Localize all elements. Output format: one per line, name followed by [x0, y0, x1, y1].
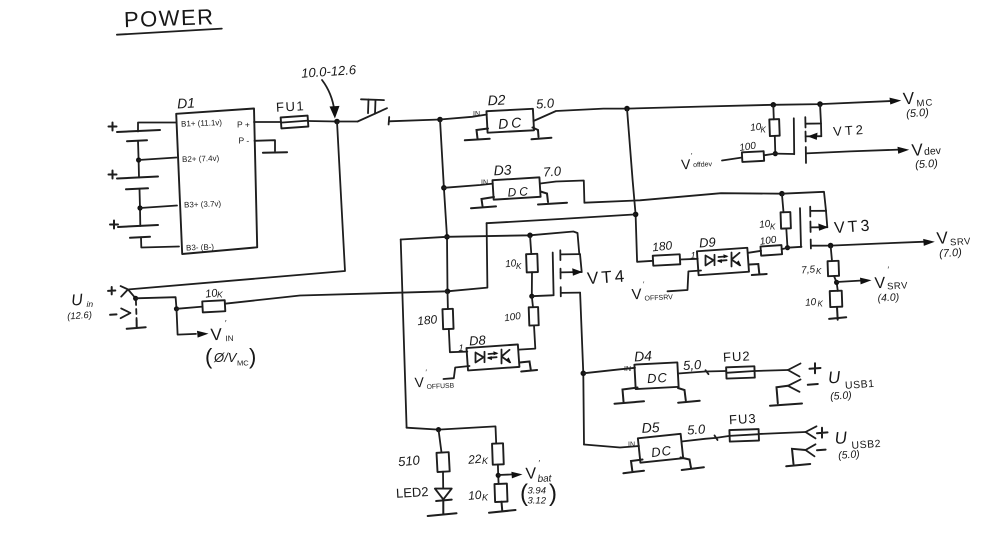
svg-text:LED2: LED2	[396, 484, 429, 501]
svg-text:(: (	[205, 344, 213, 369]
node A on 5.0 rail	[624, 106, 630, 112]
svg-text:B1+ (11.1v): B1+ (11.1v)	[181, 118, 223, 128]
svg-text:MC: MC	[237, 359, 249, 368]
fuse FU2	[723, 348, 755, 378]
node battery sense	[445, 289, 451, 295]
wire to B3+	[140, 206, 177, 209]
node VT3 pullup	[779, 191, 785, 197]
resistor 22K (bat divider top)	[467, 443, 504, 467]
resistor 10K (divider bottom)	[805, 291, 843, 309]
wire VT2 drain to V_dev	[806, 150, 899, 154]
svg-text:DC: DC	[647, 370, 669, 386]
wire B1+	[138, 123, 176, 132]
ground D4 right	[678, 388, 700, 403]
wire 7.0 rail to VT3	[584, 193, 782, 203]
wire D9 bottom-left pin to V_offsrv	[668, 271, 702, 292]
wire FU3 to USB2	[759, 432, 806, 434]
arrow V_MC	[890, 98, 902, 105]
resistor 10K (U_in sense)	[177, 287, 226, 312]
node VT4 gate	[529, 294, 534, 299]
switch SA1	[337, 99, 389, 124]
node U_in sense	[133, 296, 138, 301]
net label V_bat (3.94 3.12)	[520, 459, 557, 507]
wire line Q left drop	[448, 223, 488, 291]
node battery tap 237	[444, 234, 450, 240]
arrow V_SRV	[923, 239, 935, 246]
optocoupler D8	[466, 332, 519, 370]
svg-text:U: U	[827, 368, 841, 388]
svg-text:V: V	[681, 156, 692, 173]
node VT2 source	[817, 101, 823, 107]
annotation arrow to node	[322, 80, 340, 119]
svg-text:B3- (B-): B3- (B-)	[186, 243, 215, 253]
wire P- to ground	[255, 140, 276, 151]
wire 10K to VT3 gate node	[786, 229, 787, 248]
svg-text:IN: IN	[624, 366, 631, 373]
svg-text:K: K	[816, 267, 822, 276]
ground D3 right	[538, 192, 567, 205]
svg-text:VT4: VT4	[586, 266, 627, 288]
DC converter D2	[486, 91, 534, 132]
svg-text:180: 180	[416, 312, 438, 328]
node B2 junction	[136, 157, 141, 162]
wire VT4 drain down to USB converters	[580, 293, 584, 445]
svg-text:D4: D4	[634, 348, 653, 365]
svg-text:5.0: 5.0	[687, 421, 707, 437]
node N1	[334, 119, 340, 125]
wire 5.0 rail to 10K VT2	[772, 105, 775, 120]
svg-text:V: V	[631, 286, 642, 304]
net label U_USB2 (5.0)	[834, 428, 881, 462]
net label V_dev (5.0)	[911, 140, 942, 171]
wire D5 out to FU3	[682, 436, 730, 442]
svg-text:180: 180	[651, 238, 673, 254]
svg-text:D1: D1	[177, 95, 196, 112]
svg-text:V: V	[936, 228, 949, 248]
resistor 180 (D8 LED)	[416, 309, 453, 329]
minus sign USB2	[817, 449, 826, 452]
ground D5 left	[623, 460, 644, 474]
node V_SRV divider	[828, 243, 834, 249]
net label V_SRV (7.0)	[936, 228, 972, 260]
wire gate node to 100	[532, 296, 533, 307]
wire to VT3 source elbow	[782, 192, 826, 211]
node V_SRV tap	[834, 276, 838, 291]
svg-text:K: K	[818, 300, 824, 309]
svg-text:OFFUSB: OFFUSB	[426, 383, 454, 391]
svg-text:IN: IN	[628, 442, 635, 449]
svg-text:FU2: FU2	[723, 348, 751, 364]
node D4 tap	[581, 371, 587, 377]
wire 10K to gate node VT2	[774, 136, 777, 154]
net label V_offdev	[681, 153, 713, 172]
ground D5 right	[681, 458, 704, 471]
svg-text:dev: dev	[924, 145, 942, 158]
svg-text:V: V	[911, 140, 924, 160]
arrow V_SRV tap	[837, 281, 860, 282]
svg-text:IN: IN	[481, 180, 488, 187]
terminal USB2 minus	[806, 444, 816, 456]
node B	[633, 212, 639, 218]
wire N2 down with taps	[440, 120, 448, 292]
node 10K VT2 top	[771, 102, 777, 108]
terminal USB1 minus	[788, 380, 801, 392]
wire 100 to D8 output	[519, 325, 535, 349]
svg-text:D5: D5	[641, 419, 660, 436]
net label V_SRV' (4.0)	[874, 266, 908, 305]
ground U_in	[127, 320, 146, 329]
wire to D3 IN	[444, 184, 493, 188]
svg-text:IN: IN	[473, 111, 480, 118]
wire to D4 IN	[583, 368, 635, 374]
node VT2 gate	[773, 151, 778, 156]
svg-text:FU1: FU1	[276, 98, 306, 115]
resistor 100 (VT2 gate)	[739, 141, 765, 162]
svg-text:OFFSRV: OFFSRV	[644, 294, 673, 302]
net label U_in (12.6)	[67, 292, 94, 323]
wire 10K to VT4 gate node	[531, 272, 533, 296]
resistor 100 (VT3 gate)	[759, 234, 782, 255]
svg-text:5.0: 5.0	[536, 95, 556, 111]
svg-text:7.0: 7.0	[543, 163, 563, 179]
wire D9 pin4 to 100	[748, 251, 761, 253]
wire D2 out to 5.0 rail	[534, 101, 892, 121]
resistor 100 (VT4 gate)	[504, 307, 539, 326]
svg-text:5,0: 5,0	[683, 357, 703, 373]
battery cell G1	[109, 123, 161, 142]
wire V_IN arrow	[177, 309, 197, 335]
tick on D5 out	[715, 435, 718, 440]
wire 180 to D8 pin1	[449, 329, 468, 352]
tick on D4 out	[706, 370, 709, 374]
plus sign USB2	[817, 428, 828, 438]
terminal USB2 plus	[806, 426, 817, 438]
svg-text:B3+ (3.7v): B3+ (3.7v)	[184, 199, 222, 209]
svg-text:V: V	[902, 89, 915, 109]
node V_IN tap	[174, 306, 179, 311]
node 510 tap	[436, 427, 441, 432]
ground D2 left	[465, 129, 490, 141]
svg-text:Ø/V: Ø/V	[213, 350, 238, 365]
wire D4 out to FU2	[678, 371, 726, 374]
terminal USB1 plus	[788, 364, 801, 377]
wire VT3 drain to V_SRV	[811, 242, 925, 246]
resistor 10K (VT3 gate pullup)	[759, 194, 791, 232]
node VT4 pullup	[527, 233, 533, 239]
svg-text:DC: DC	[650, 443, 672, 460]
wire VT4 drain stub	[561, 292, 580, 294]
net label V_MC (5.0)	[902, 89, 933, 121]
battery cell G3	[110, 221, 158, 238]
node VT3 gate	[785, 245, 790, 250]
svg-text:(12.6): (12.6)	[67, 310, 93, 323]
wire LED rail	[407, 426, 497, 443]
wire line Q from battery corner to node B	[487, 214, 636, 223]
node B3 junction	[137, 205, 142, 210]
vertical 5.0 feed node A to node B	[627, 109, 653, 262]
svg-text:IN: IN	[225, 334, 234, 343]
svg-text:K: K	[217, 290, 223, 300]
DC converter D4	[634, 348, 679, 390]
svg-text:7,5: 7,5	[801, 264, 816, 276]
dashed ground link	[135, 300, 138, 320]
svg-text:D9: D9	[699, 234, 717, 250]
svg-text:in: in	[87, 299, 94, 309]
svg-text:D2: D2	[487, 91, 506, 108]
wire V_offdev to 100	[722, 158, 742, 161]
title POWER	[117, 4, 222, 35]
wire P+ to FU1	[254, 121, 281, 123]
wire gate node to gate bar	[532, 294, 553, 297]
svg-text:3.12: 3.12	[528, 496, 547, 507]
node V_bat tap	[497, 465, 500, 484]
svg-text:): )	[549, 480, 557, 507]
wire 10K to battery sense node	[225, 291, 448, 303]
LED LED2	[396, 472, 452, 501]
svg-text:(5.0): (5.0)	[915, 158, 939, 172]
ground USB1	[770, 386, 802, 406]
wire D8 bottom-left pin to V_offusb	[444, 366, 470, 379]
svg-text:10: 10	[468, 488, 483, 503]
resistor 7.5K (divider top)	[801, 246, 839, 277]
svg-text:10: 10	[805, 297, 817, 309]
wire N1 to U_in plus	[129, 122, 345, 290]
ground D3 left	[471, 197, 496, 208]
resistor 180 (D9 LED)	[651, 238, 680, 265]
svg-text:D3: D3	[493, 161, 512, 178]
wire to B2+	[139, 158, 177, 161]
svg-text:K: K	[482, 493, 489, 503]
wire switch to node N2	[389, 120, 440, 122]
svg-text:U: U	[71, 292, 84, 310]
svg-text:VT2: VT2	[833, 122, 867, 139]
svg-text:P -: P -	[239, 136, 250, 146]
svg-text:(4.0): (4.0)	[877, 291, 899, 304]
svg-text:(5.0): (5.0)	[906, 107, 930, 121]
transistor VT3	[800, 207, 873, 249]
wire gate node to gate bar	[775, 153, 794, 155]
ground P-	[263, 151, 287, 154]
resistor 10K (bat divider bottom)	[468, 484, 508, 503]
arrow V_dev	[898, 147, 910, 154]
ground divider	[829, 307, 846, 320]
node N2	[437, 117, 443, 123]
svg-text:22: 22	[467, 452, 483, 467]
net label V_offusb	[414, 370, 455, 391]
svg-text:POWER: POWER	[124, 4, 215, 32]
terminal U_in minus	[121, 308, 131, 318]
wire B3-	[141, 237, 179, 247]
ground D2 right	[532, 128, 552, 140]
net label V_IN	[210, 319, 234, 344]
plus sign U_in	[108, 287, 115, 294]
minus sign USB1	[808, 383, 818, 386]
net label U_USB1 (5.0)	[827, 368, 874, 403]
minus sign U_in	[110, 313, 116, 315]
svg-text:K: K	[770, 223, 776, 232]
svg-text:V: V	[414, 374, 425, 391]
svg-text:K: K	[761, 126, 767, 135]
fuse FU3	[729, 411, 759, 442]
DC converter D5	[638, 419, 683, 463]
svg-text:K: K	[516, 262, 522, 271]
wire 100 to gate node and gate bar	[782, 247, 802, 250]
wire N2 to D2 IN	[440, 115, 487, 120]
wire FU1 to node N1	[308, 120, 337, 123]
svg-text:K: K	[482, 456, 489, 466]
svg-text:DC: DC	[507, 184, 531, 200]
wire G1-G2 link	[138, 141, 139, 178]
wire FU2 to USB1	[755, 370, 788, 371]
fuse FU1	[276, 98, 309, 128]
ground bat divider	[489, 502, 516, 513]
svg-text:510: 510	[397, 452, 421, 469]
svg-text:U: U	[834, 428, 848, 448]
svg-text:): )	[249, 344, 256, 369]
wire plus to sense node	[129, 290, 136, 298]
wire tap to left corner	[401, 237, 447, 240]
ground USB2	[786, 449, 810, 467]
resistor 10K (VT2 gate pullup)	[750, 119, 780, 136]
svg-text:(5.0): (5.0)	[838, 448, 860, 461]
ground D8	[520, 362, 538, 372]
wire node to 180	[447, 291, 449, 309]
svg-text:B2+ (7.4v): B2+ (7.4v)	[182, 154, 220, 164]
svg-text:FU3: FU3	[729, 411, 757, 427]
svg-text:D8: D8	[469, 332, 487, 348]
transistor VT2	[794, 104, 867, 163]
DC converter D3	[492, 161, 540, 199]
svg-text:DC: DC	[498, 114, 525, 132]
svg-text:P +: P +	[237, 120, 250, 130]
wire 100 to gate node	[764, 154, 775, 156]
arrow V_bat	[498, 473, 513, 476]
wire corner down to LED rail	[401, 240, 407, 428]
ground D4 left	[615, 388, 645, 404]
svg-text:V: V	[210, 325, 223, 345]
transistor VT4	[553, 250, 628, 296]
ground LED2	[428, 501, 457, 516]
BMS board D1	[176, 95, 257, 254]
net label V_offsrv	[631, 282, 673, 304]
svg-text:VT3: VT3	[834, 217, 873, 237]
svg-text:1: 1	[459, 343, 464, 353]
svg-text:offdev: offdev	[693, 161, 713, 169]
optocoupler D9	[697, 234, 749, 275]
svg-text:1: 1	[691, 251, 696, 261]
label (0/V_MC)	[205, 344, 256, 369]
wire G2-G3 link	[139, 189, 142, 226]
wire VT4 drain corner to D5 IN	[584, 445, 639, 448]
wire sense node to 10K	[136, 297, 177, 309]
battery cell G2	[109, 171, 159, 190]
svg-text:(5.0): (5.0)	[830, 389, 852, 402]
terminal U_in plus	[121, 286, 128, 297]
resistor 10K (VT4 gate pullup)	[505, 235, 538, 272]
svg-text:(7.0): (7.0)	[939, 247, 963, 261]
ground D9	[750, 264, 767, 275]
resistor 510	[397, 430, 449, 472]
wire D3 out 7.0 elbow	[540, 181, 584, 203]
svg-text:V: V	[874, 275, 886, 293]
wire tap to VT4 rail	[447, 232, 579, 255]
plus sign USB1	[810, 363, 821, 373]
wire 180 to D9 pin1	[680, 258, 698, 261]
node D3 tap	[441, 185, 447, 191]
